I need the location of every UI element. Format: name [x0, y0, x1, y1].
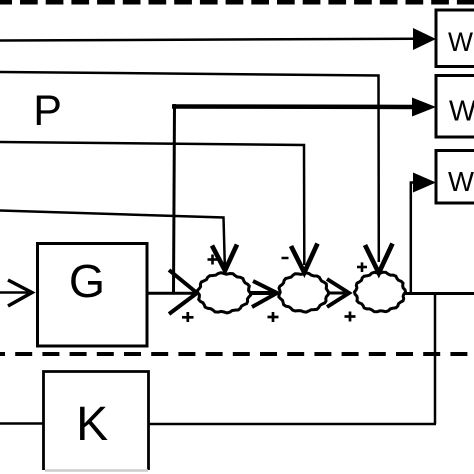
wire S1 to S2 [249, 291, 273, 295]
wire w1 input to W1 [0, 39, 414, 41]
sign - above S2 [282, 257, 289, 260]
arrowhead (open V) into S3 top [365, 244, 393, 274]
arrowhead (open V) into S1 [169, 270, 197, 314]
svg-text:P: P [33, 87, 62, 135]
summer S2 [279, 273, 329, 312]
arrowhead into W1 [413, 28, 436, 50]
block G [38, 244, 148, 347]
svg-text:G: G [69, 255, 105, 307]
wire S2 to S3 [327, 292, 345, 295]
plant boundary dashed line (top) [0, 0, 474, 5]
wire G output to summer S1 [147, 292, 197, 295]
wire control input u into G [0, 291, 28, 294]
wire feedback down to K row [434, 294, 437, 425]
svg-text:W: W [448, 27, 473, 57]
wire w3 input elbow down to summer S3 [0, 72, 379, 262]
block W1 [436, 10, 474, 67]
block W3 [436, 151, 474, 204]
wire disturbance input elbow down to summer S1 [0, 211, 225, 266]
wire vertical tap from plant output up to thick wire [174, 104, 175, 293]
sign + above S3 [357, 262, 367, 272]
sign + above S1 [208, 255, 218, 265]
block K faint bottom edge [45, 469, 148, 472]
arrowhead (open V) into S1 top [212, 245, 237, 271]
arrowhead (open V) into S2 [252, 281, 277, 307]
wire K input from right [148, 423, 436, 426]
svg-text:K: K [76, 398, 108, 451]
block K [44, 372, 149, 471]
arrowhead into W3 [413, 173, 436, 193]
plant boundary dashed line (bottom) [0, 352, 474, 356]
svg-text:W: W [449, 96, 474, 128]
sign + left-below S1 [182, 312, 194, 322]
arrowhead (open V) into S3 [327, 279, 349, 307]
summer S3 [355, 272, 406, 312]
block W2 [436, 76, 474, 138]
wire output z from S3 to right edge [404, 292, 474, 295]
sign + left-below S2 [268, 312, 279, 322]
arrowhead into W2 [412, 98, 436, 117]
wire w2 input elbow down to summer S2 [0, 142, 304, 265]
sign + left-below S3 [345, 312, 356, 322]
svg-text:W: W [448, 166, 474, 197]
arrowhead (open V) into G [8, 280, 32, 306]
summer S1 [197, 273, 250, 313]
arrowhead (open V) into S2 top [291, 244, 318, 273]
wire output tap up to W3 [411, 183, 414, 294]
wire K output to left edge [0, 422, 44, 425]
thick wire y tap to W2 [172, 104, 414, 109]
